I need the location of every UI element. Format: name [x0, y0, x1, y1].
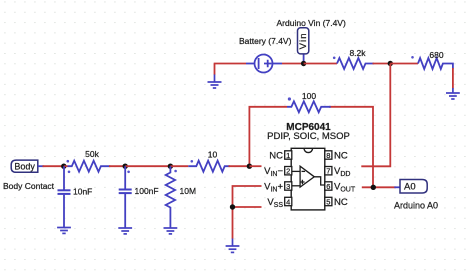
connector A0	[400, 180, 427, 194]
wire	[214, 64, 246, 75]
wire	[361, 64, 390, 167]
junction	[388, 61, 393, 66]
svg-text:4: 4	[286, 198, 290, 207]
ground	[164, 228, 178, 234]
svg-text:Body Contact: Body Contact	[3, 181, 55, 191]
svg-text:Arduino Vin (7.4V): Arduino Vin (7.4V)	[277, 18, 346, 28]
svg-text:8.2k: 8.2k	[349, 48, 366, 58]
resistor R 50k	[68, 161, 111, 172]
svg-text:6: 6	[326, 182, 330, 191]
probe dot markers	[67, 56, 414, 173]
op-amp inside U1	[292, 166, 325, 187]
svg-text:680: 680	[429, 50, 443, 60]
pin 1	[285, 151, 292, 160]
ground	[226, 239, 240, 253]
IC U1 MCP6041 body	[291, 148, 325, 210]
wire	[170, 165, 188, 167]
svg-text:10M: 10M	[180, 186, 197, 196]
svg-text:Arduino A0: Arduino A0	[394, 200, 438, 210]
svg-text:NC: NC	[269, 151, 283, 162]
wire VOUT	[362, 186, 396, 188]
svg-text:100: 100	[302, 91, 316, 101]
pin 6	[325, 182, 332, 191]
junction	[230, 204, 235, 209]
wire to pin2	[249, 165, 261, 167]
svg-text:Battery (7.4V): Battery (7.4V)	[239, 36, 292, 46]
junction	[168, 164, 173, 169]
wire	[64, 165, 68, 167]
svg-text:10nF: 10nF	[73, 187, 92, 197]
junction	[61, 164, 66, 169]
svg-text:NC: NC	[334, 197, 348, 208]
wire	[373, 63, 391, 65]
ground	[446, 88, 460, 99]
resistor R 10	[188, 161, 230, 172]
wire	[282, 63, 304, 65]
wire	[125, 165, 170, 167]
wire	[390, 63, 418, 65]
wire	[229, 165, 250, 167]
pin 8	[325, 151, 332, 160]
junction	[301, 61, 306, 66]
resistor R 100 (feedback)	[249, 107, 373, 188]
svg-text:8: 8	[326, 151, 330, 160]
pin 5	[325, 197, 332, 206]
junction	[371, 185, 376, 190]
wire	[109, 165, 125, 167]
wire VSS	[233, 206, 262, 208]
net flag Vin	[298, 28, 310, 64]
svg-text:50k: 50k	[85, 149, 99, 159]
wire	[38, 165, 44, 167]
capacitor C 100nF	[119, 166, 132, 227]
wire	[452, 68, 454, 89]
resistor R 680	[418, 58, 453, 69]
svg-text:PDIP, SOIC, MSOP: PDIP, SOIC, MSOP	[267, 131, 350, 142]
svg-text:A0: A0	[404, 182, 416, 193]
junction	[123, 164, 128, 169]
pin 3	[285, 182, 292, 191]
junction	[247, 164, 252, 169]
connector Body	[11, 160, 38, 172]
pin 4	[285, 197, 292, 206]
battery V1	[246, 55, 282, 73]
capacitor C 10nF	[58, 166, 71, 227]
svg-text:Vin: Vin	[298, 32, 309, 49]
svg-text:Body: Body	[14, 161, 35, 171]
svg-text:7: 7	[326, 167, 330, 176]
svg-text:100nF: 100nF	[135, 186, 159, 196]
wire	[394, 186, 400, 188]
svg-text:3: 3	[286, 182, 290, 191]
svg-text:10: 10	[208, 150, 218, 160]
pin 7	[325, 167, 332, 176]
resistor R 10M (vertical)	[166, 166, 175, 227]
ground	[208, 74, 222, 88]
svg-text:1: 1	[286, 151, 290, 160]
ground	[57, 228, 71, 234]
wire	[304, 63, 337, 65]
svg-text:2: 2	[286, 167, 290, 176]
svg-text:5: 5	[326, 198, 330, 207]
resistor R 8.2k	[337, 58, 374, 69]
wire VIN+	[233, 186, 262, 239]
svg-text:NC: NC	[334, 151, 348, 162]
pin 2	[285, 167, 292, 176]
ground	[118, 228, 132, 234]
